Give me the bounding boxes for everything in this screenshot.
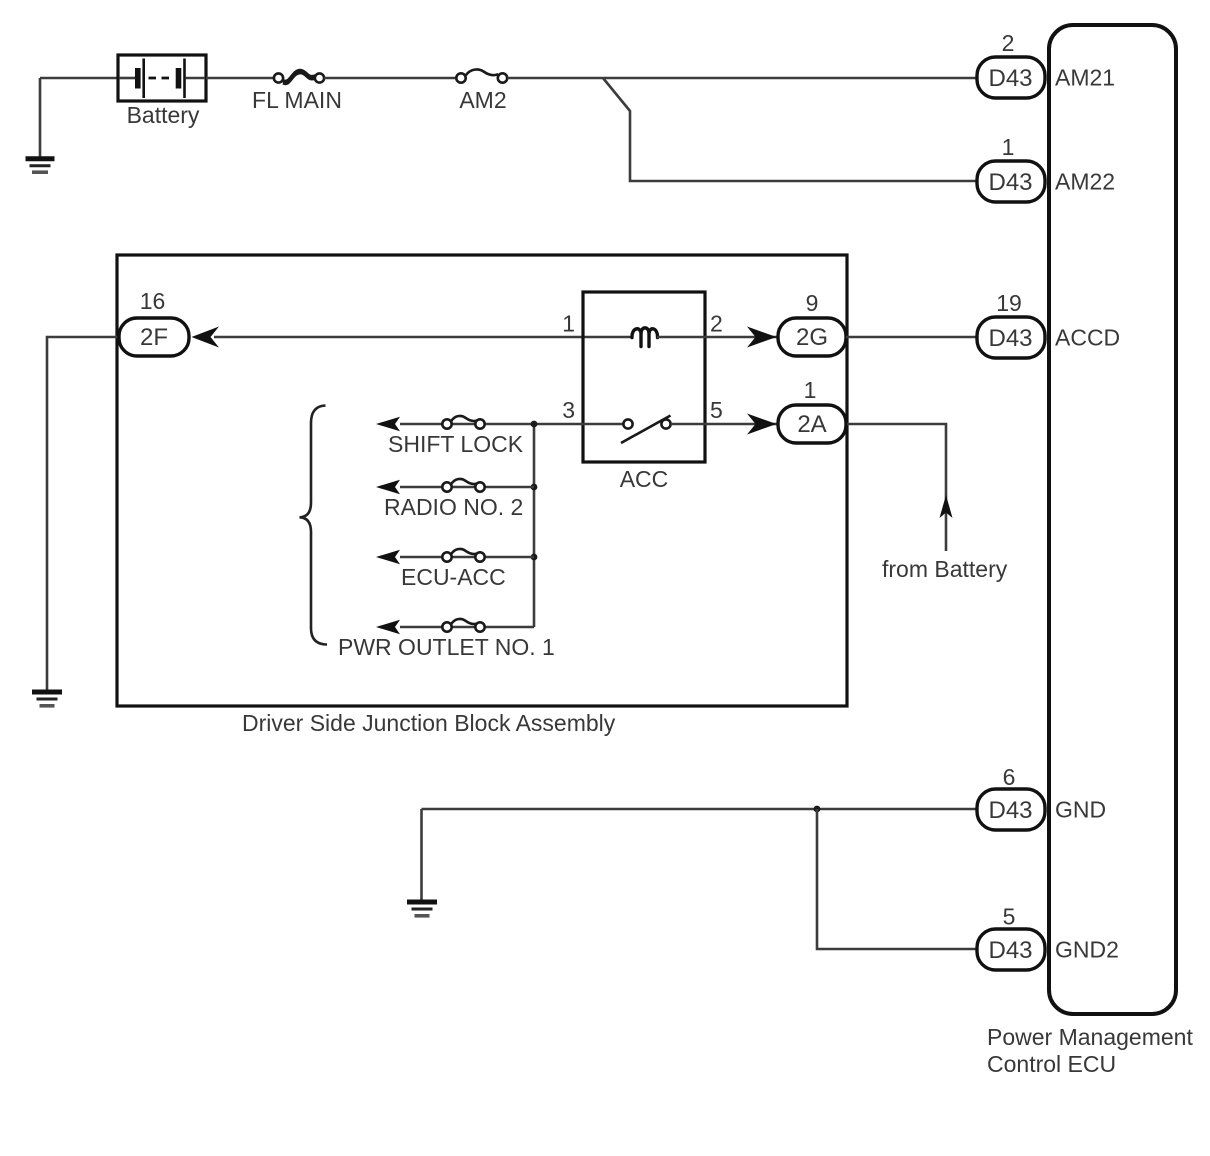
svg-text:AM2: AM2	[459, 87, 506, 113]
svg-text:1: 1	[1002, 134, 1015, 160]
relay switch	[621, 416, 671, 444]
svg-text:1: 1	[804, 377, 817, 403]
svg-text:ACC: ACC	[620, 466, 669, 492]
connector D43 pin 1	[977, 161, 1045, 202]
wire GND row	[422, 808, 978, 811]
svg-text:SHIFT LOCK: SHIFT LOCK	[388, 431, 524, 457]
svg-text:D43: D43	[988, 65, 1032, 92]
arrow from Battery (up)	[940, 495, 953, 518]
wire ground to battery	[40, 77, 118, 80]
relay coil	[632, 328, 658, 347]
arrow into 2A	[747, 414, 777, 435]
arrow to RADIO NO. 2	[376, 480, 400, 495]
svg-text:19: 19	[996, 290, 1022, 316]
fuse bus vertical	[533, 424, 536, 627]
wire switch row pin3	[400, 423, 623, 426]
svg-text:Power Management: Power Management	[987, 1024, 1193, 1050]
svg-text:D43: D43	[988, 169, 1032, 196]
svg-text:Battery: Battery	[127, 102, 200, 128]
wire GND2 branch	[817, 809, 977, 949]
ground G3	[407, 902, 437, 916]
svg-text:ECU-ACC: ECU-ACC	[401, 564, 506, 590]
connector 2F	[119, 318, 189, 356]
svg-text:Driver Side Junction Block Ass: Driver Side Junction Block Assembly	[242, 710, 616, 736]
svg-text:2F: 2F	[140, 324, 168, 351]
junction dot row3	[531, 554, 538, 561]
wire 2G to D43 ACCD	[846, 336, 977, 339]
junction dot row1	[531, 421, 538, 428]
wire arrow to relay coil	[214, 336, 632, 339]
wire GND to ground	[420, 809, 423, 900]
svg-text:1: 1	[562, 311, 575, 337]
wire battery to FL MAIN	[206, 77, 273, 80]
svg-text:PWR OUTLET NO. 1: PWR OUTLET NO. 1	[338, 634, 555, 660]
wire ECU-ACC row	[400, 556, 534, 559]
svg-text:D43: D43	[988, 797, 1032, 824]
svg-text:RADIO NO. 2: RADIO NO. 2	[384, 494, 523, 520]
wire 2F to ground	[47, 337, 119, 690]
junction block Driver Side Junction Block Assembly	[117, 255, 847, 706]
svg-text:5: 5	[1003, 904, 1016, 930]
wire 2A to from-Battery feed	[847, 424, 946, 551]
svg-text:FL MAIN: FL MAIN	[252, 87, 342, 113]
arrow into 2G	[747, 327, 777, 348]
fuse SHIFT LOCK	[442, 416, 484, 429]
svg-text:3: 3	[562, 397, 575, 423]
svg-text:2: 2	[1002, 30, 1015, 56]
fuse RADIO NO. 2	[442, 479, 484, 492]
arrow to SHIFT LOCK	[376, 417, 400, 432]
svg-text:9: 9	[806, 290, 819, 316]
wire RADIO row	[400, 486, 534, 489]
ground G2	[32, 692, 62, 706]
relay box ACC	[583, 292, 705, 462]
wire AM2 to D43 AM21	[508, 77, 978, 80]
svg-text:ACCD: ACCD	[1055, 325, 1120, 351]
connector 2A	[778, 405, 846, 443]
wire branch to D43 AM22	[603, 78, 977, 181]
connector D43 pin 5	[977, 929, 1045, 970]
connector D43 pin 2	[977, 57, 1045, 98]
svg-text:6: 6	[1003, 764, 1016, 790]
connector D43 pin 6	[977, 789, 1045, 830]
fuse PWR OUTLET NO. 1	[442, 619, 484, 632]
brace fuse group	[300, 406, 328, 645]
arrow to ECU-ACC	[376, 550, 400, 565]
battery	[118, 55, 206, 101]
svg-text:Control ECU: Control ECU	[987, 1051, 1116, 1077]
arrow into 2F	[192, 327, 220, 348]
svg-text:GND2: GND2	[1055, 937, 1119, 963]
svg-text:16: 16	[140, 288, 166, 314]
svg-text:D43: D43	[988, 937, 1032, 964]
connector 2G	[778, 318, 846, 356]
svg-text:2G: 2G	[796, 324, 828, 351]
svg-text:AM21: AM21	[1055, 65, 1115, 91]
arrow to PWR OUTLET NO. 1	[376, 620, 400, 635]
junction dot row2	[531, 484, 538, 491]
svg-text:5: 5	[710, 397, 723, 423]
ground G1 (battery negative)	[26, 78, 55, 172]
wire PWR OUTLET row	[400, 626, 534, 629]
connector D43 pin 19	[977, 317, 1045, 358]
junction dot GND	[814, 806, 821, 813]
fuse AM2	[456, 69, 507, 82]
wire coil to 2G	[657, 336, 778, 339]
svg-text:GND: GND	[1055, 797, 1106, 823]
fusible link FL MAIN	[274, 70, 324, 84]
svg-text:D43: D43	[988, 325, 1032, 352]
wire switch to 2A	[671, 423, 778, 426]
fuse ECU-ACC	[442, 549, 484, 562]
svg-text:from Battery: from Battery	[882, 556, 1008, 582]
svg-text:AM22: AM22	[1055, 169, 1115, 195]
wire FL MAIN to AM2	[324, 77, 456, 80]
svg-text:2: 2	[710, 311, 723, 337]
svg-text:2A: 2A	[797, 411, 826, 438]
ECU outline Power Management Control ECU	[1049, 25, 1176, 1014]
